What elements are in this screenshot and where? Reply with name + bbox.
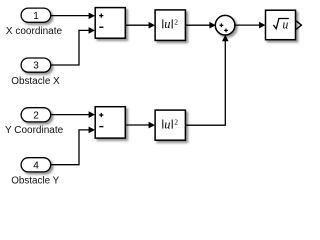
sum block Sum2 <box>95 107 125 138</box>
wire: Sum2 output to |u|^2 (bottom) <box>125 122 155 129</box>
circle sum bottom plus <box>224 29 228 33</box>
svg-text:Obstacle X: Obstacle X <box>11 76 60 87</box>
Sum1 minus sign <box>99 26 103 28</box>
Sum1 plus sign <box>99 14 103 18</box>
wire: circle sum to sqrt block <box>235 22 266 29</box>
|u|^2 top text <box>163 17 178 31</box>
circle sum (Add) <box>215 15 235 35</box>
circle sum left plus <box>220 23 224 27</box>
svg-text:2: 2 <box>174 118 178 127</box>
wire: Inport 3 to Sum1 input 2 (up and over) <box>51 27 95 65</box>
svg-text:u: u <box>283 18 289 32</box>
sqrt radical and u <box>273 18 288 32</box>
sum block Sum1 <box>95 8 125 39</box>
svg-text:u: u <box>164 117 170 131</box>
svg-text:Obstacle Y: Obstacle Y <box>11 175 59 186</box>
wire: Inport 2 to Sum2 input 1 <box>51 111 95 118</box>
Sum2 plus sign <box>99 113 103 117</box>
wire: Inport 1 to Sum1 input 1 <box>51 13 95 20</box>
svg-text:3: 3 <box>33 61 39 72</box>
inport 3 <box>21 58 51 72</box>
inport 2 <box>21 108 51 122</box>
inport 1 <box>21 8 51 22</box>
wire: Sum1 output to |u|^2 (top) <box>125 22 155 29</box>
svg-text:1: 1 <box>33 11 39 22</box>
math function block |u|^2 (top) <box>155 10 185 41</box>
output port chevron (unconnected output) <box>296 21 301 29</box>
svg-text:u: u <box>164 17 170 31</box>
wire: Inport 4 to Sum2 input 2 (up and over) <box>51 127 95 165</box>
inport 4 <box>21 158 51 172</box>
svg-text:Y Coordinate: Y Coordinate <box>5 125 64 136</box>
wire: |u|^2 (top) to circle sum <box>186 22 216 29</box>
svg-text:X coordinate: X coordinate <box>6 26 63 37</box>
svg-text:2: 2 <box>174 18 178 27</box>
|u|^2 bottom text <box>163 117 178 131</box>
math function block |u|^2 (bottom) <box>155 110 185 140</box>
svg-text:4: 4 <box>33 160 39 171</box>
wire: |u|^2 (bottom) up to circle sum bottom input <box>186 35 229 125</box>
sqrt block <box>266 10 296 40</box>
svg-text:2: 2 <box>33 110 39 121</box>
Sum2 minus sign <box>99 126 103 128</box>
